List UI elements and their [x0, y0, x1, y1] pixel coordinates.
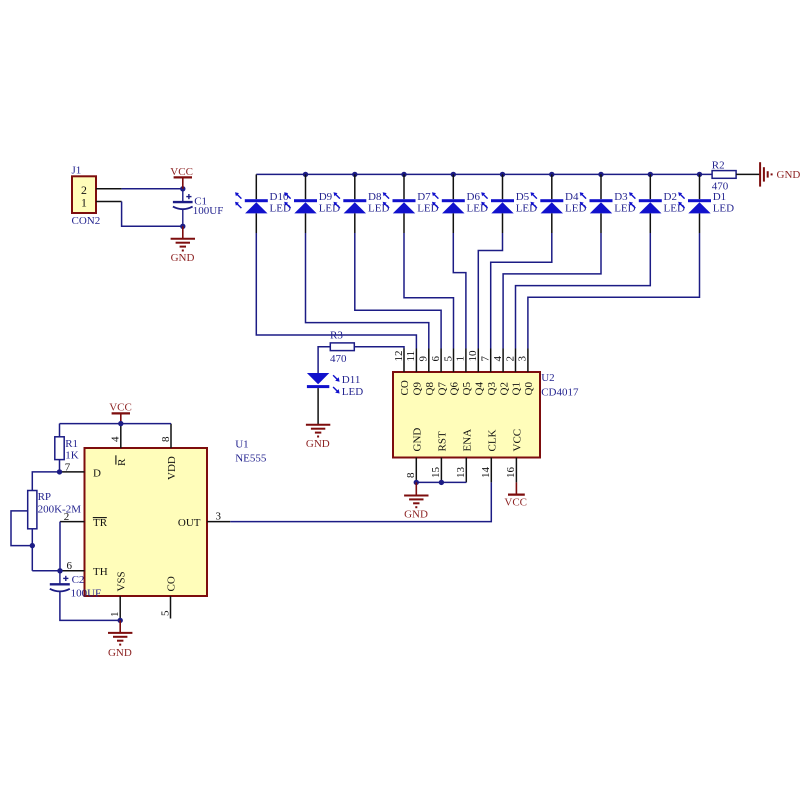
svg-text:100UF: 100UF	[193, 205, 224, 217]
LED D1	[699, 174, 701, 199]
svg-text:3: 3	[216, 510, 222, 522]
wire R3 left to D11	[318, 347, 330, 373]
wire RP bottom	[31, 529, 33, 571]
svg-text:Q6: Q6	[449, 382, 461, 396]
junction at pin 15	[439, 480, 444, 485]
junction on rail at D9	[303, 172, 308, 177]
ground symbol below D11	[306, 424, 330, 426]
svg-text:TH: TH	[93, 566, 108, 578]
U1 pin 1 (VSS)	[119, 596, 121, 620]
capacitor C2	[59, 571, 61, 585]
svg-text:1K: 1K	[65, 449, 79, 461]
wire junction to RP top	[32, 472, 59, 491]
svg-text:14: 14	[480, 467, 492, 479]
wire R3 right to U2 CO pin	[354, 347, 404, 349]
svg-text:R2: R2	[712, 160, 725, 172]
U2 bottom pin 13 (ENA)	[465, 458, 467, 483]
junction RP wiper	[30, 543, 35, 548]
LED D2	[649, 174, 651, 199]
junction on rail at D1	[697, 172, 702, 177]
LED D6	[452, 174, 454, 199]
svg-text:1: 1	[455, 356, 467, 362]
svg-text:D2: D2	[664, 191, 677, 203]
resistor R3	[330, 343, 354, 351]
U1 pin 4 (R)	[120, 424, 122, 448]
svg-text:GND: GND	[171, 252, 195, 264]
junction on rail at D5	[500, 172, 505, 177]
svg-text:Q9: Q9	[412, 382, 424, 396]
svg-text:7: 7	[65, 461, 71, 473]
LED D5	[502, 174, 504, 199]
svg-text:CO: CO	[399, 380, 411, 395]
svg-text:Q2: Q2	[498, 382, 510, 395]
J1 pin 1 stub	[96, 201, 122, 203]
svg-text:VCC: VCC	[170, 166, 193, 178]
svg-text:470: 470	[330, 353, 347, 365]
svg-text:TR: TR	[93, 517, 108, 529]
svg-text:200K-2M: 200K-2M	[38, 504, 82, 516]
wire D7 anode to U2 pin	[403, 213, 405, 233]
U2 bottom pin 8 (GND)	[415, 458, 417, 483]
LED D3	[600, 174, 602, 199]
capacitor C1	[182, 189, 184, 202]
junction on rail at D6	[451, 172, 456, 177]
U1 pin 3 (OUT)	[207, 521, 230, 523]
junction on rail at D8	[352, 172, 357, 177]
wire D8 anode to U2 pin	[354, 213, 356, 233]
svg-text:2: 2	[504, 356, 516, 362]
wire VCC rail above U1	[60, 423, 172, 425]
junction on rail at D7	[401, 172, 406, 177]
U1 pin 8 (VDD)	[170, 424, 172, 448]
svg-text:GND: GND	[777, 169, 801, 181]
ground symbol below U1	[119, 620, 121, 633]
svg-text:16: 16	[505, 467, 517, 479]
svg-text:GND: GND	[404, 508, 428, 520]
svg-text:D3: D3	[614, 191, 628, 203]
connector J1	[72, 176, 96, 213]
wire D3 anode to U2 pin	[600, 213, 602, 233]
svg-text:J1: J1	[72, 165, 82, 177]
wire RP to TH	[32, 570, 60, 572]
svg-text:D8: D8	[368, 191, 382, 203]
resistor R1	[59, 424, 61, 437]
ground symbol below U2	[415, 482, 417, 495]
svg-text:12: 12	[393, 351, 405, 362]
wire RP wiper loop	[11, 511, 32, 546]
svg-text:LED: LED	[342, 386, 363, 398]
svg-text:13: 13	[455, 467, 467, 479]
junction on rail at D2	[648, 172, 653, 177]
wire top cathode rail	[256, 173, 712, 175]
svg-text:U2: U2	[541, 372, 554, 384]
svg-text:Q7: Q7	[436, 382, 448, 396]
U2 top pin 4 (Q2)	[502, 349, 504, 373]
wire C2 bottom to pin 1	[60, 591, 120, 620]
svg-text:RST: RST	[437, 431, 449, 451]
node GND junction at C1 bottom	[180, 224, 185, 229]
U2 bottom pin 14 (CLK)	[490, 458, 492, 483]
svg-text:C2: C2	[72, 574, 85, 586]
wire J1 pin1 to GND node	[122, 202, 183, 227]
power VCC symbol (J1)	[174, 176, 192, 178]
svg-text:VCC: VCC	[109, 401, 132, 413]
svg-text:D6: D6	[467, 191, 481, 203]
U2 top pin 12 (CO)	[403, 349, 405, 373]
svg-text:CD4017: CD4017	[541, 387, 579, 399]
LED D9	[305, 174, 307, 199]
svg-text:GND: GND	[108, 647, 132, 659]
U1 pin 5 (CO)	[170, 596, 172, 619]
svg-text:U1: U1	[235, 438, 248, 450]
svg-text:VSS: VSS	[115, 571, 127, 591]
svg-text:Q3: Q3	[486, 382, 498, 396]
svg-text:8: 8	[160, 436, 172, 442]
svg-text:D1: D1	[713, 191, 726, 203]
U2 top pin 6 (Q7)	[440, 349, 442, 373]
power VCC symbol below U2 pin 16	[515, 482, 517, 494]
op-amp U2 CD4017 body	[393, 372, 540, 458]
U1 pin 6 (TH)	[60, 570, 85, 572]
LED D4	[551, 174, 553, 199]
svg-text:RP: RP	[38, 491, 51, 503]
svg-text:1: 1	[81, 196, 87, 210]
svg-text:8: 8	[405, 472, 417, 478]
U2 top pin 1 (Q5)	[465, 349, 467, 373]
junction at pin 8	[414, 480, 419, 485]
LED D8	[354, 174, 356, 199]
wire D11 cathode to ground	[317, 388, 319, 425]
wire U2 CLK to 555 OUT	[230, 482, 491, 521]
U2 top pin 7 (Q3)	[490, 349, 492, 373]
svg-text:15: 15	[430, 467, 442, 479]
svg-text:4: 4	[110, 436, 122, 442]
svg-text:1: 1	[109, 612, 121, 618]
svg-text:D4: D4	[565, 191, 579, 203]
svg-text:D: D	[93, 467, 101, 479]
svg-text:D7: D7	[417, 191, 431, 203]
svg-text:GND: GND	[412, 428, 424, 452]
svg-text:LED: LED	[713, 203, 734, 215]
junction at pin 1	[118, 618, 123, 623]
svg-text:11: 11	[405, 351, 417, 362]
resistor R2	[712, 171, 736, 179]
LED D10	[255, 174, 257, 199]
svg-text:3: 3	[517, 356, 529, 362]
op-amp U1 NE555 body	[85, 448, 208, 596]
svg-text:R3: R3	[330, 330, 343, 342]
junction on rail at D4	[549, 172, 554, 177]
svg-text:CO: CO	[166, 576, 178, 591]
svg-text:D9: D9	[319, 191, 333, 203]
svg-text:NE555: NE555	[235, 452, 267, 464]
wire U2 ground net (pins 8,15,13)	[416, 481, 466, 483]
wire D5 anode to U2 pin	[502, 213, 504, 233]
resistor RP (trimmer)	[28, 491, 37, 529]
wire R1 bottom to pin 7	[59, 460, 61, 472]
node VCC junction at C1 top	[180, 186, 185, 191]
svg-text:9: 9	[418, 356, 430, 362]
svg-text:Q8: Q8	[424, 382, 436, 396]
svg-text:Q1: Q1	[511, 382, 523, 395]
svg-text:Q0: Q0	[523, 382, 535, 396]
ground symbol below C1	[182, 226, 184, 239]
wire D9 anode to U2 pin	[305, 213, 307, 233]
wire D2 anode to U2 pin	[649, 213, 651, 233]
U2 top pin 10 (Q4)	[477, 349, 479, 373]
wire D6 anode to U2 pin	[452, 213, 454, 233]
wire TR to TH	[59, 522, 61, 571]
wire R2 to ground	[736, 173, 760, 175]
LED D11	[307, 373, 329, 384]
svg-text:D5: D5	[516, 191, 530, 203]
svg-text:4: 4	[492, 356, 504, 362]
junction at pin 7	[57, 469, 62, 474]
U2 top pin 11 (Q9)	[415, 349, 417, 373]
junction at TH	[57, 568, 62, 573]
wire D4 anode to U2 pin	[551, 213, 553, 233]
wire D1 anode to U2 pin	[699, 213, 701, 233]
svg-text:5: 5	[442, 356, 454, 362]
svg-text:Q5: Q5	[461, 382, 473, 396]
svg-text:D11: D11	[342, 374, 361, 386]
U1 pin 7 (D)	[60, 471, 85, 473]
LED D7	[403, 174, 405, 199]
junction on rail at D3	[598, 172, 603, 177]
U2 bottom pin 15 (RST)	[440, 458, 442, 483]
U2 top pin 3 (Q0)	[527, 349, 529, 373]
svg-text:ENA: ENA	[462, 429, 474, 452]
U1 pin 2 (TR)	[60, 521, 85, 523]
svg-text:5: 5	[159, 610, 171, 616]
svg-text:Q4: Q4	[474, 382, 486, 396]
svg-text:7: 7	[480, 356, 492, 362]
wire D10 anode to U2 pin	[255, 213, 257, 233]
svg-text:VCC: VCC	[504, 496, 527, 508]
junction below VCC	[118, 421, 123, 426]
U2 top pin 5 (Q6)	[453, 349, 455, 373]
ground symbol right of R2 (rotated)	[759, 162, 761, 186]
svg-text:10: 10	[467, 350, 479, 362]
wire J1 pin2 to VCC node	[122, 188, 183, 190]
svg-text:VDD: VDD	[166, 456, 178, 480]
svg-text:6: 6	[67, 560, 73, 572]
svg-text:100UF: 100UF	[71, 587, 102, 599]
U2 top pin 9 (Q8)	[428, 349, 430, 373]
svg-text:VCC: VCC	[512, 429, 524, 452]
J1 pin 2 stub	[96, 188, 122, 190]
svg-text:CLK: CLK	[487, 429, 499, 451]
svg-text:GND: GND	[306, 438, 330, 450]
U2 top pin 2 (Q1)	[515, 349, 517, 373]
svg-text:CON2: CON2	[72, 215, 101, 227]
U2 bottom pin 16 (VCC)	[515, 458, 517, 483]
svg-text:OUT: OUT	[178, 517, 201, 529]
svg-text:6: 6	[430, 356, 442, 362]
svg-text:R: R	[116, 458, 128, 466]
